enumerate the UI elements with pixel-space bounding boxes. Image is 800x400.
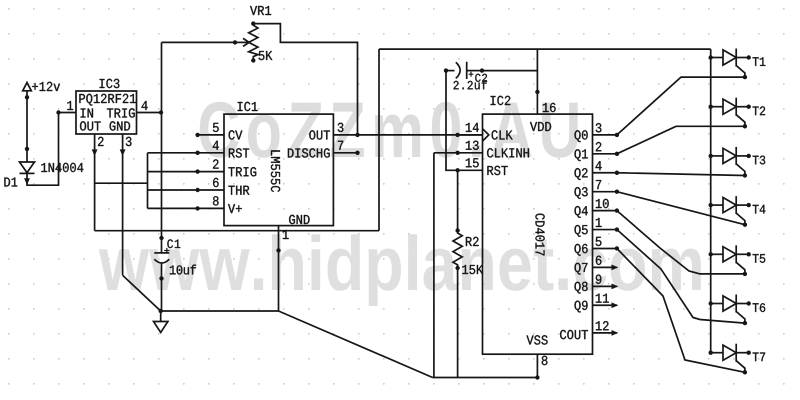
pin tip dot R2 top — [455, 228, 459, 232]
junction dot — [455, 133, 459, 137]
label IC1 — [238, 102, 258, 111]
text T7 — [753, 353, 766, 362]
pin number 8 — [213, 196, 219, 205]
pin arrow COUT — [612, 330, 619, 336]
pin number 2 — [596, 142, 602, 151]
pin name THR — [228, 186, 249, 195]
IC2 pin 13 stub CLKINH — [458, 152, 483, 154]
pin name CV — [229, 130, 243, 139]
pin name GND — [110, 121, 131, 130]
IC3 pin 4 stub — [137, 112, 162, 114]
thyristor T5 — [709, 245, 766, 276]
pin tip dot VR1 bottom — [251, 58, 255, 62]
IC1 pin 7 stub DISCHG — [333, 152, 357, 154]
pin name OUT — [309, 130, 330, 139]
wire — [453, 231, 462, 269]
thyristor T2 — [709, 98, 766, 129]
pin number 12 — [596, 321, 609, 330]
IC2 Q7 pin stub — [593, 266, 617, 268]
text T1 — [753, 57, 766, 66]
pin number 5 — [596, 237, 602, 246]
junction dot — [455, 151, 459, 155]
junction dot — [709, 252, 713, 256]
pin tip dot VDD — [535, 90, 539, 94]
IC2 Q8 pin stub — [593, 285, 617, 287]
text +12v — [32, 82, 60, 91]
wire Q3 to T4 gate — [617, 192, 745, 225]
junction dot — [709, 301, 713, 305]
thyristor T1 — [709, 49, 766, 80]
IC1 pin 6 stub THR — [198, 189, 224, 191]
junction dot — [195, 188, 199, 192]
pin arrow Q8 — [612, 283, 619, 289]
wire D1 cathode to IC3 pin 1 — [27, 113, 59, 186]
label VR1 — [250, 6, 271, 15]
pin number 6 — [213, 178, 219, 187]
junction dot — [747, 154, 751, 158]
diode D1 1N4004 — [20, 162, 35, 173]
label 1N4004 — [41, 163, 83, 172]
wire OUT to IC2 CLK — [358, 134, 483, 136]
junction dot — [615, 227, 619, 231]
junction dot — [743, 272, 747, 276]
ground rail left — [161, 310, 279, 312]
pin arrow IC3 pin 3 — [120, 149, 126, 156]
IC2 Q9 pin stub — [593, 304, 617, 306]
pin name TRIG — [228, 167, 256, 176]
ground symbol — [160, 311, 162, 322]
wire — [711, 352, 723, 354]
pin number 3 — [126, 137, 132, 146]
pin name Q3 — [575, 187, 588, 199]
wire pin2 row to IC1 ladder — [95, 182, 148, 184]
pin number 13 — [466, 141, 479, 150]
junction dot — [615, 208, 619, 212]
wire — [711, 303, 723, 305]
pin tip dot VR1 top — [251, 21, 255, 25]
junction dot — [615, 171, 619, 175]
wire C2 to VDD column — [482, 70, 537, 72]
pin number 10 — [596, 199, 609, 208]
wire — [446, 70, 455, 72]
C1 bottom lead — [161, 263, 163, 311]
wire VR1 top to IC1 OUT — [253, 24, 357, 135]
pin name Q9 — [575, 301, 588, 313]
label IC2 — [491, 96, 511, 105]
pin number 14 — [466, 123, 479, 132]
wire Q0 to T1 gate — [617, 77, 745, 135]
IC2 Q6 pin stub — [593, 247, 617, 249]
pin name Q7 — [575, 263, 588, 275]
junction dot — [615, 189, 619, 193]
wire — [736, 303, 749, 305]
op IC3 PQ12RF21 box — [76, 91, 137, 134]
junction dot — [195, 206, 199, 210]
pin name RST — [487, 166, 507, 175]
ground rail right — [433, 377, 538, 379]
pin name OUT — [80, 121, 101, 130]
IC1 pin 4 stub RST — [198, 152, 224, 154]
junction dot — [709, 105, 713, 109]
pin number 1 — [283, 230, 289, 239]
wire — [736, 155, 749, 157]
VR1 wiper arrow — [243, 38, 249, 46]
pin name Q2 — [575, 168, 588, 180]
pin number 4 — [142, 101, 148, 110]
pin number 6 — [596, 256, 602, 265]
text T3 — [753, 156, 766, 165]
ground diagonal to IC2 area — [279, 311, 433, 378]
IC2 COUT pin stub — [593, 332, 617, 334]
pin arrow Q7 — [612, 265, 619, 271]
IC3 pin 2 wire down — [94, 134, 96, 231]
text CD4017 vertical — [535, 214, 544, 256]
junction dot — [743, 173, 747, 177]
wire wiper to C1 column — [162, 41, 236, 43]
pin name VSS — [527, 335, 548, 344]
label 10uf — [170, 265, 196, 275]
label C2 — [475, 74, 487, 82]
junction dot — [709, 351, 713, 355]
wire — [711, 253, 723, 255]
wire to THR — [148, 189, 198, 191]
pin tip dot C1 bottom — [159, 276, 163, 280]
pin number 5 — [213, 123, 219, 132]
op IC1 LM555C box — [224, 114, 333, 226]
pin name Q6 — [575, 244, 588, 256]
watermark CoZZm0.AU — [200, 102, 578, 158]
wire to V+ — [148, 207, 198, 209]
thyristor T6 — [709, 295, 766, 326]
IC1 pin 1 GND wire down — [278, 226, 280, 311]
wire — [467, 70, 482, 72]
junction dot — [195, 169, 199, 173]
junction dot — [615, 246, 619, 250]
junction dot — [455, 168, 459, 172]
pin number 8 — [542, 356, 548, 365]
pin tip dot R2 bottom — [455, 266, 459, 270]
pin number 1 — [596, 218, 602, 227]
IC2 pin 8 VSS stub — [536, 354, 538, 377]
resistor R2 15K — [457, 170, 459, 230]
junction dot — [743, 223, 747, 227]
pin number 2 — [98, 137, 104, 146]
text T2 — [753, 106, 766, 115]
label 2.2uf — [454, 80, 487, 89]
pin tip dot D1 anode — [25, 147, 29, 151]
junction dot — [747, 203, 751, 207]
IC1 pin 2 stub TRIG — [198, 171, 224, 173]
pin arrow Q9 — [612, 302, 619, 308]
junction dot — [709, 154, 713, 158]
junction dot — [615, 152, 619, 156]
text PQ12RF21 — [79, 94, 135, 106]
pin number 11 — [596, 294, 609, 303]
wire — [736, 204, 749, 206]
pin number 7 — [338, 141, 343, 150]
text T6 — [753, 303, 766, 312]
IC2 Q5 pin stub — [593, 229, 617, 231]
label 15K — [462, 265, 483, 274]
potentiometer VR1 5K — [249, 24, 258, 61]
junction ground node — [159, 309, 163, 313]
clock input mark — [483, 129, 489, 141]
label D1 — [4, 178, 17, 187]
pin tip dot VR1 wiper — [233, 40, 237, 44]
pin number 16 — [543, 103, 556, 112]
pin number 1 — [67, 101, 73, 110]
junction dot — [615, 133, 619, 137]
top supply rail — [379, 48, 711, 50]
pin number 3 — [596, 123, 602, 132]
label R2 — [466, 237, 479, 246]
wire Q4 to T5 gate — [617, 211, 745, 274]
capacitor C2 2.2uf — [444, 68, 448, 72]
IC1 pin 3 stub OUT — [333, 134, 357, 136]
junction dot — [747, 301, 751, 305]
pin name COUT — [560, 330, 588, 339]
wire +12V to D1 anode — [26, 91, 28, 162]
pin tip dot IC3 pin 4 — [159, 110, 163, 114]
junction dot — [747, 252, 751, 256]
wire — [711, 204, 723, 206]
pin number 9 — [596, 275, 602, 284]
thyristor T4 — [709, 196, 766, 227]
wire — [736, 57, 749, 59]
junction dot — [747, 351, 751, 355]
pin number 7 — [596, 180, 601, 189]
IC2 pin 14 stub CLK — [458, 134, 483, 136]
pin name Q1 — [575, 149, 588, 161]
watermark www.hidplanet.com — [99, 234, 701, 306]
pin tip dot C1 top — [159, 236, 163, 240]
pin number 15 — [466, 158, 479, 167]
junction dot — [747, 105, 751, 109]
pin name IN — [81, 109, 93, 118]
pin name DISCHG — [288, 148, 330, 157]
junction dot — [709, 203, 713, 207]
pin arrow D1 cathode — [24, 178, 30, 185]
junction OUT / VR1 — [355, 133, 359, 137]
IC2 Q1 pin stub — [593, 153, 617, 155]
text LM555C vertical — [271, 150, 280, 192]
capacitor C1 10uf — [161, 42, 163, 253]
junction dot — [709, 55, 713, 59]
wire Q1 to T2 gate — [617, 126, 745, 154]
IC2 pin 15 stub RST — [458, 169, 483, 171]
pin name CLKINH — [487, 148, 529, 157]
junction dot — [743, 370, 747, 374]
pin number 4 — [213, 141, 219, 150]
power +12V symbol — [23, 83, 32, 91]
wire supply horizontal row — [95, 230, 379, 232]
wire to RST — [148, 152, 198, 154]
IC1 pin 8 stub V+ — [198, 207, 224, 209]
junction dot — [195, 151, 199, 155]
wire Q5 to T6 gate — [617, 230, 745, 324]
wire C2 left down to RST — [446, 71, 458, 171]
junction dot — [195, 133, 199, 137]
pin tip dot GND — [276, 248, 280, 252]
pin tip dot +12V — [25, 95, 29, 99]
SCR anode bus — [710, 49, 712, 353]
wire supply vertical — [378, 49, 380, 231]
IC3 pin 3 wire down — [122, 134, 124, 275]
wire CLKINH feed — [434, 152, 458, 154]
junction dot — [743, 321, 747, 325]
wire — [711, 106, 723, 108]
pin number 4 — [596, 161, 602, 170]
wire pin3 diagonal to ground node — [123, 275, 161, 311]
VR1 wiper pin stub — [235, 41, 249, 43]
wire to TRIG — [148, 171, 198, 173]
wire Q2 to T3 gate — [617, 173, 745, 176]
thyristor T7 — [709, 344, 766, 375]
pin name Q0 — [575, 130, 588, 142]
wire — [711, 57, 723, 59]
pin name Q8 — [575, 282, 588, 294]
label C1 — [167, 239, 180, 248]
pin tip dot DISCHG — [355, 151, 359, 155]
wire CLKINH down to ground — [433, 153, 435, 378]
pin arrow IC3 pin 2 — [92, 149, 98, 156]
wire — [711, 155, 723, 157]
pin name TRIG — [107, 108, 135, 117]
pin name VDD — [530, 122, 551, 131]
pin number 3 — [338, 123, 344, 132]
pin name Q4 — [575, 206, 588, 218]
pin name CLK — [492, 130, 513, 139]
thyristor T3 — [709, 147, 766, 178]
op IC2 CD4017 box — [483, 114, 593, 354]
text T5 — [753, 254, 766, 263]
pin tip dot VSS — [535, 375, 539, 379]
IC1 pin 5 stub CV — [198, 134, 224, 136]
pin tip dot C2 right — [480, 68, 484, 72]
pin number 2 — [213, 159, 219, 168]
IC3 pin 1 stub — [59, 112, 77, 114]
IC2 Q0 pin stub — [593, 134, 617, 136]
wire Q6 to T7 gate — [617, 248, 745, 372]
pin name GND — [289, 215, 310, 224]
junction dot — [743, 75, 747, 79]
wire ladder bracket vertical — [147, 153, 149, 209]
junction dot — [747, 55, 751, 59]
wire R2 to ground rail — [457, 268, 459, 378]
label IC3 — [100, 79, 120, 88]
junction at IC3 pin 1 — [56, 110, 60, 114]
IC2 Q4 pin stub — [593, 210, 617, 212]
IC2 pin 16 VDD wire — [536, 49, 538, 114]
pin name V+ — [228, 204, 242, 213]
label 5K — [259, 51, 273, 60]
text T4 — [753, 205, 766, 214]
junction dot — [743, 124, 747, 128]
IC2 Q2 pin stub — [593, 172, 617, 174]
wire — [736, 352, 749, 354]
pin name Q5 — [575, 225, 588, 237]
wire — [736, 253, 749, 255]
wire — [736, 106, 749, 108]
pin name RST — [229, 148, 249, 157]
IC2 Q3 pin stub — [593, 191, 617, 193]
